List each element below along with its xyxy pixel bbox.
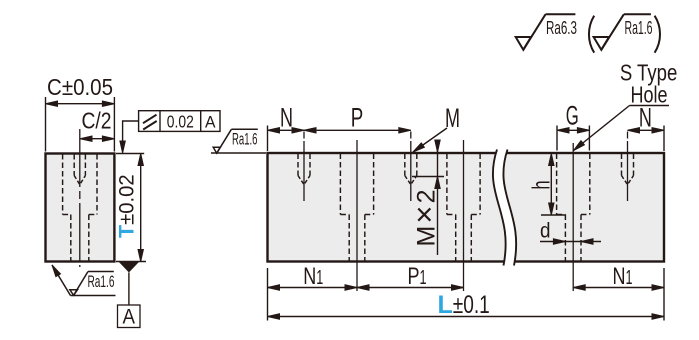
svg-text:N1: N1 (613, 263, 633, 290)
svg-text:M×2: M×2 (407, 190, 442, 247)
svg-text:C/2: C/2 (82, 108, 112, 134)
svg-text:Hole: Hole (631, 82, 668, 108)
svg-text:Ra1.6: Ra1.6 (232, 130, 258, 149)
svg-text:A: A (205, 113, 216, 132)
svg-text:N: N (280, 103, 293, 133)
svg-text:G: G (566, 101, 579, 131)
svg-text:A: A (122, 305, 135, 329)
svg-text:N1: N1 (303, 263, 323, 290)
svg-text:P1: P1 (408, 263, 427, 290)
svg-text:h: h (528, 181, 556, 190)
svg-text:T±0.02: T±0.02 (115, 174, 139, 238)
svg-text:0.02: 0.02 (167, 112, 194, 132)
svg-text:P: P (351, 103, 364, 133)
svg-text:Ra1.6: Ra1.6 (88, 272, 115, 291)
svg-text:C±0.05: C±0.05 (47, 74, 113, 100)
svg-text:L±0.1: L±0.1 (438, 291, 490, 319)
svg-text:Ra1.6: Ra1.6 (625, 18, 653, 38)
svg-text:d: d (540, 220, 551, 243)
svg-text:Ra6.3: Ra6.3 (546, 18, 577, 38)
